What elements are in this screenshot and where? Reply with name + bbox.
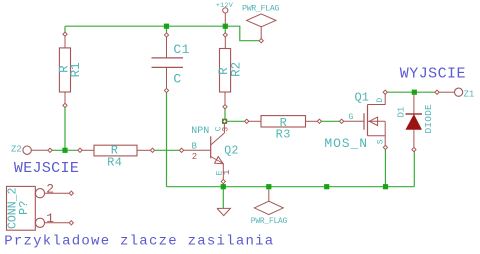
wire input left segment: [50, 149, 80, 151]
wire output junction to Z1: [414, 91, 435, 93]
junction input node: [62, 148, 67, 153]
global label Z1: [435, 88, 474, 99]
junction output node: [412, 90, 417, 95]
resistor R4: [78, 144, 155, 170]
wire emitter drop: [222, 183, 224, 187]
wire R2 bottom to collector junction: [224, 108, 226, 121]
svg-text:2: 2: [46, 182, 54, 197]
svg-text:PWR_FLAG: PWR_FLAG: [242, 4, 279, 14]
svg-text:MOS_N: MOS_N: [324, 136, 368, 151]
wire source drop: [384, 149, 386, 187]
wire collector junction to R3: [225, 120, 246, 122]
resistor R3: [245, 116, 322, 142]
resistor R1: [57, 32, 83, 107]
wire diode bottom drop: [413, 151, 415, 187]
svg-text:DIODE: DIODE: [423, 104, 434, 134]
svg-text:R2: R2: [229, 62, 243, 77]
wire drain to output: [387, 91, 413, 93]
wire R3 to gate: [321, 120, 340, 122]
svg-text:D: D: [376, 98, 385, 103]
wire R1 top stub: [64, 26, 66, 34]
junction pwr flag ground: [266, 184, 271, 189]
wire PWR_FLAG jog: [225, 26, 259, 41]
connector P1 CONN_2: [6, 182, 73, 231]
wire top +12V rail: [65, 25, 225, 27]
svg-text:Q2: Q2: [224, 145, 239, 158]
power +12V: [216, 2, 234, 24]
resistor R2: [217, 33, 243, 109]
power flag PWR2 bottom: [251, 189, 288, 226]
wire C1 top stub: [166, 26, 168, 34]
ground symbol: [217, 208, 230, 215]
svg-text:WEJSCIE: WEJSCIE: [14, 160, 79, 177]
svg-text:S: S: [376, 139, 385, 144]
svg-text:R1: R1: [69, 62, 83, 77]
svg-text:NPN: NPN: [191, 126, 209, 137]
wire ground stub: [222, 187, 224, 209]
svg-text:Q1: Q1: [355, 90, 369, 104]
svg-text:PWR_FLAG: PWR_FLAG: [251, 217, 288, 226]
pin diamond collector node: [222, 119, 226, 123]
svg-text:Przykladowe zlacze zasilania: Przykladowe zlacze zasilania: [4, 234, 274, 250]
svg-text:+12V: +12V: [216, 2, 234, 10]
global label Z2: [11, 144, 52, 154]
svg-text:WYJSCIE: WYJSCIE: [400, 65, 466, 82]
svg-text:D1: D1: [396, 107, 406, 118]
svg-text:G: G: [349, 113, 354, 122]
svg-text:3: 3: [222, 127, 231, 132]
svg-text:R3: R3: [276, 127, 291, 141]
wire R1 bottom drop: [64, 107, 66, 150]
junction source ground: [383, 184, 388, 189]
transistor Q1 MOS_N: [324, 90, 387, 151]
junction collector node: [222, 119, 227, 124]
svg-text:Z2: Z2: [11, 144, 22, 154]
junction +12V rail: [223, 24, 228, 29]
svg-text:C: C: [173, 71, 181, 86]
svg-text:1: 1: [222, 170, 232, 175]
svg-text:B: B: [192, 142, 198, 152]
capacitor C1: [152, 33, 190, 93]
svg-text:C1: C1: [173, 42, 190, 57]
svg-text:1: 1: [46, 211, 54, 226]
wire C1 bottom long drop: [166, 92, 168, 187]
junction spare ground rail: [324, 184, 329, 189]
diode D1: [396, 95, 434, 152]
svg-text:P?: P?: [17, 201, 31, 215]
wire R4 to base: [153, 149, 182, 151]
svg-text:2: 2: [192, 152, 197, 162]
junction C1 top: [164, 24, 169, 29]
wire bottom ground rail: [167, 186, 415, 188]
power flag PWR1 top: [242, 4, 279, 43]
transistor Q2 NPN: [179, 123, 238, 183]
svg-text:R4: R4: [107, 155, 122, 169]
wire R2 top stub: [224, 26, 226, 33]
svg-text:Z1: Z1: [464, 89, 475, 99]
junction emitter ground: [221, 184, 226, 189]
